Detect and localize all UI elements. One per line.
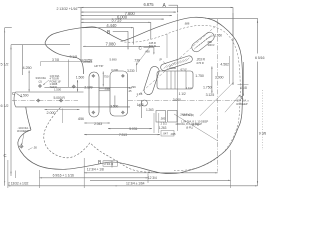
cavity big route [110,71,128,116]
svg-text:(6 PL): (6 PL) [192,122,199,126]
svg-text:1.750: 1.750 [203,86,212,90]
svg-text:67.0°: 67.0° [181,68,188,72]
svg-text:3.230: 3.230 [127,69,135,73]
svg-text:3.000: 3.000 [215,75,224,79]
note block leader [43,80,49,85]
right dim vertical main [257,18,258,186]
dim 1 1/2 lower [154,113,167,133]
svg-text:12 3/4 + 1/8: 12 3/4 + 1/8 [87,167,104,171]
dim 1.750 right [203,86,212,90]
svg-text:7.080: 7.080 [106,42,117,47]
note 1.04 DIA right [236,99,249,106]
label P flag [160,58,167,64]
label 3 1/8 [52,55,117,87]
dim 7.313 [84,133,160,137]
svg-text:3.125: 3.125 [206,93,215,97]
label 5 1/2 [1,63,9,67]
label 67 deg [181,68,193,91]
neck pickup centre mark [138,104,142,108]
label 5.000 R [54,96,66,100]
dim 2.199 [84,86,92,90]
note 3/16 DIA [35,76,46,83]
top body tangent extension [205,17,258,19]
label .25 [128,89,132,93]
dim 6.000 [81,14,164,19]
svg-text:1 1/2: 1 1/2 [186,86,192,90]
svg-text:.25: .25 [128,89,132,93]
svg-text:3/4 DEEP: 3/4 DEEP [236,102,248,106]
svg-text:.498: .498 [145,50,151,54]
label HP TIP [94,64,103,68]
svg-text:1 1/2: 1 1/2 [179,92,186,96]
svg-text:5 1/2: 5 1/2 [1,63,9,67]
dim 3.713 [81,18,151,40]
svg-text:2 3/4 R: 2 3/4 R [104,162,114,166]
pickup axis dashed [136,23,219,97]
right ext vertical 233 [232,13,234,36]
label .203 R [196,57,206,65]
svg-text:3/4 DEEP: 3/4 DEEP [17,129,29,133]
label A with leader [163,3,179,13]
neck pocket top line [44,87,130,89]
label 1.500 left [20,87,61,97]
bridge route rounded rect [157,71,193,89]
svg-text:9 3/8: 9 3/8 [259,132,266,136]
svg-text:.750: .750 [104,87,110,91]
label B with leader [107,30,129,50]
dim 1 1/8 right [238,62,263,150]
note block multiline [50,74,62,89]
neck plate hole 3 [36,99,40,103]
small rect A [156,111,166,123]
svg-text:7.313: 7.313 [119,133,127,137]
body outline lower right bout [108,127,239,174]
neck line bottom [26,106,131,108]
svg-text:.300 R: .300 R [207,43,214,47]
svg-text:.585: .585 [160,117,166,121]
svg-text:2.199: 2.199 [84,86,92,90]
note 1.04 DIA 6PL bottom [181,120,208,127]
bottom ext x84 [83,158,85,188]
svg-text:.738: .738 [134,59,140,63]
label .20 [128,86,132,90]
top-left note 2 13/32 [57,7,78,11]
diagonal projection line [174,114,218,141]
neck end cap [14,92,25,107]
cavity slot 1 [89,72,99,117]
left ext horizontal [11,45,70,75]
svg-text:4.562: 4.562 [220,62,229,66]
neck plate hole 2 [72,85,76,89]
bottom dim 12 3/4 1/64 [118,181,258,186]
neck plate hole 4 [59,99,63,103]
boxed label .047 [161,131,174,137]
svg-text:.076 R: .076 R [196,61,204,65]
vertical dim line mid [166,34,168,58]
vertical dashed centerline [217,19,219,172]
label C flag [12,91,23,97]
dim row A [81,12,176,13]
leader to dip radius [136,48,150,66]
dashed inner template curve right [121,25,241,170]
svg-text:2 13/32 +1/16: 2 13/32 +1/16 [57,7,78,11]
svg-text:6 5/16: 6 5/16 [255,56,264,60]
svg-text:.688: .688 [184,22,190,26]
dim 3.000 right [211,56,229,93]
dim 5.031 [108,127,152,131]
slot hole a [91,74,95,78]
body outline left lower edge [26,107,31,130]
bridge pickup slanted obround [192,32,214,52]
label 4.500 [169,66,176,70]
svg-text:6 9/16 + 1 1/16: 6 9/16 + 1 1/16 [53,174,74,178]
dim 2.043 [84,122,110,126]
label .585 [160,117,166,121]
body outline waist bottom [18,130,108,169]
svg-text:3.000: 3.000 [173,98,181,102]
svg-text:3.500: 3.500 [110,104,118,108]
note .250 R [182,113,194,117]
bottom left hole [19,144,24,149]
bottom ext x230 [230,150,232,188]
svg-text:4.440: 4.440 [106,23,117,28]
dim 2.000 [45,109,80,124]
svg-text:.045: .045 [170,132,176,136]
label 3.000 center [173,98,181,102]
left dim vertical second [10,45,11,176]
svg-text:1.500: 1.500 [76,76,85,80]
dim 7.080 waist [83,42,160,47]
label 4.0625R [81,59,93,63]
svg-text:.656: .656 [78,117,84,121]
label .738 [134,59,140,72]
bridge route inner lines [167,71,186,89]
svg-text:3 7/8: 3 7/8 [52,58,59,62]
svg-text:4.500: 4.500 [169,66,176,70]
svg-text:12 3/4: 12 3/4 [148,176,157,180]
top dim left extension line [78,7,82,60]
label 6 1/2 [1,104,9,108]
bottom ext x7 [7,160,9,188]
label .445 R [148,41,156,45]
A datum vertical line [177,14,179,132]
svg-text:5.690: 5.690 [110,57,117,61]
dim 3.500 [110,96,118,109]
svg-text:1.263: 1.263 [159,126,167,130]
svg-text:3.230: 3.230 [111,68,118,72]
label .243 R (2) [180,112,192,116]
bottom dim 2 13/32 [8,181,118,186]
bottom ext x15 [15,171,17,179]
svg-text:5.031: 5.031 [129,127,137,131]
slot hole c [121,74,125,78]
svg-text:(2): (2) [39,79,42,83]
small rect B [168,111,178,123]
svg-text:1 1/2: 1 1/2 [160,121,167,125]
dim 3.125 right [206,93,215,97]
dim 7.800 [81,11,172,16]
svg-text:.750: .750 [103,74,109,78]
slot hole b [91,111,95,115]
cavity channel [99,88,110,91]
note .104 DIA bottom left [17,126,32,133]
label 1 1/2 center [179,92,186,96]
dim .750 [103,72,110,91]
svg-text:2 13/32 ± 1/32: 2 13/32 ± 1/32 [8,181,28,185]
svg-text:3 1/8: 3 1/8 [70,55,78,59]
svg-text:+0.0005: +0.0005 [83,60,93,64]
label .500 R [148,44,156,48]
label .50 flag [28,146,37,151]
label .688 top [184,22,190,26]
label C mid flag [139,46,155,55]
label C bottom [4,153,7,158]
dim 4.250 [23,66,32,91]
bottom dim 6 9/16 [40,174,149,179]
label 6 5/16 [255,56,264,60]
svg-text:3.713: 3.713 [111,18,122,23]
svg-text:1.500: 1.500 [54,87,61,91]
long diagonal leader [200,82,234,116]
svg-text:2.060: 2.060 [215,34,223,38]
horizontal centerline right [128,100,238,102]
label .045 [170,132,176,136]
bottom dim 12 3/4 [90,176,231,181]
body outline right edge [214,21,243,127]
label .656 [78,117,84,121]
label 9 3/8 [259,132,267,136]
svg-text:C: C [4,153,7,158]
horizontal centerline [12,100,78,102]
label B bottom with leader [98,160,113,168]
dim 1.750 center [195,74,204,78]
svg-text:2.043: 2.043 [94,122,102,126]
label +0.0005 [83,60,93,64]
boxed label 2 3/4 R [103,161,118,166]
centre symbol right [240,95,244,100]
svg-text:2.000: 2.000 [47,111,56,115]
middle pickup slanted obround [161,56,193,71]
svg-text:.50: .50 [33,146,37,150]
dim 4.562 [220,38,233,85]
dim 1.263 [146,108,154,112]
body outline top edge [45,17,214,43]
dim 1.500 upper [76,76,85,92]
label 3.230 [111,68,143,96]
left pocket ext line [41,62,91,66]
neck plate hole 1 [38,84,42,88]
svg-text:1.500: 1.500 [20,93,28,97]
neck pickup slanted obround [144,66,159,94]
svg-text:4.250: 4.250 [23,66,32,70]
slot hole d [121,111,125,115]
dashed inner template curve lower [44,108,152,173]
svg-text:5.000 R: 5.000 R [54,96,66,100]
svg-text:.250 R (2): .250 R (2) [182,113,194,117]
svg-text:1 1/2: 1 1/2 [137,103,144,107]
svg-text:6 1/2: 6 1/2 [1,104,9,108]
note .104 DIA 6PL [175,122,202,130]
label 2.060 [206,34,222,47]
neck pickup circle [141,100,147,106]
dim 1.263 lower [159,126,167,130]
leader diagonal right [225,94,241,112]
dim 6.875 [81,2,233,36]
leader to hole [22,134,25,146]
svg-text:1.263: 1.263 [146,108,154,112]
body outline upper horn [45,43,84,74]
left dim vertical main [4,28,12,186]
svg-text:1.750: 1.750 [195,74,204,78]
svg-text:HP TIP: HP TIP [94,64,103,68]
svg-text:12 3/4 ± 1/64: 12 3/4 ± 1/64 [126,181,145,185]
dim 1 1/2 small [137,100,144,118]
neck line top [16,91,84,93]
bottom ext x148 [147,174,149,184]
bottom dim 12 3/4 +1/8 [84,167,218,173]
svg-text:.047: .047 [163,132,169,136]
dim 4.440 [81,23,134,45]
bottom ext x39 [39,170,41,188]
svg-text:6.875: 6.875 [144,2,155,7]
